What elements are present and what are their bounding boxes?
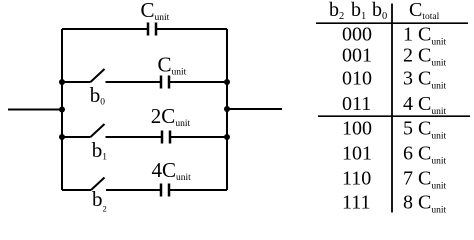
wire branch2 mid: [106, 81, 162, 83]
table column divider: [391, 4, 393, 213]
node right bus / lead: [224, 106, 230, 112]
switch b2: [91, 178, 105, 191]
svg-text:000: 000: [342, 24, 372, 46]
table group separator rule: [318, 115, 470, 117]
wire right bus: [226, 29, 228, 190]
wire branch3 mid: [106, 136, 163, 138]
svg-text:100: 100: [342, 117, 372, 139]
wire branch3 right: [170, 136, 227, 138]
wire left bus: [61, 29, 63, 190]
wire branch2 right: [169, 81, 227, 83]
node left bus / branch3: [59, 134, 65, 140]
wire branch1 left: [62, 28, 148, 30]
svg-text:010: 010: [342, 68, 372, 90]
capacitor 4C_unit plates: [161, 184, 169, 197]
capacitor 2C_unit plates: [162, 131, 170, 144]
switch b1: [91, 124, 105, 137]
node right bus / branch2: [224, 79, 230, 85]
wire branch4 left: [62, 189, 91, 191]
wire branch4 right: [169, 189, 227, 191]
svg-text:001: 001: [342, 45, 372, 67]
svg-text:011: 011: [342, 93, 371, 115]
switch b0: [91, 69, 105, 82]
node left bus / lead: [59, 107, 65, 113]
wire branch3 left: [62, 136, 91, 138]
svg-text:111: 111: [342, 192, 371, 214]
wire left lead: [8, 109, 62, 111]
svg-text:101: 101: [342, 143, 372, 165]
capacitor C_unit branch2 plates: [161, 76, 169, 89]
svg-text:b2b1b0: b2b1b0: [329, 0, 387, 22]
wire branch2 left: [62, 81, 91, 83]
wire right lead: [227, 108, 282, 110]
wire branch1 right: [156, 28, 227, 30]
node left bus / branch2: [59, 79, 65, 85]
node right bus / branch3: [224, 134, 230, 140]
wire branch4 mid: [106, 189, 161, 191]
table header rule: [316, 22, 468, 24]
svg-text:110: 110: [342, 168, 371, 190]
capacitor C_unit top plates: [148, 23, 156, 36]
